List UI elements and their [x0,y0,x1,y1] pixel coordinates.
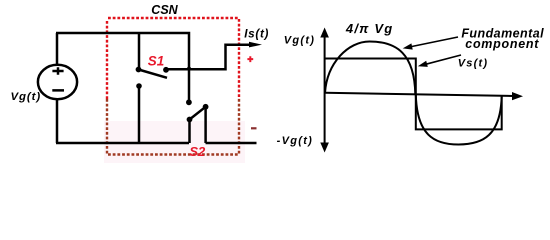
svg-text:component: component [465,37,539,51]
svg-text:Vs(t): Vs(t) [458,58,488,70]
svg-text:S1: S1 [148,54,164,69]
svg-text:S2: S2 [189,144,206,159]
svg-text:4/π Vg: 4/π Vg [345,21,394,36]
svg-text:Is(t): Is(t) [244,27,269,40]
svg-text:CSN: CSN [151,3,178,17]
svg-text:Vg(t): Vg(t) [284,34,316,46]
svg-text:Vg(t): Vg(t) [10,91,41,103]
svg-text:-Vg(t): -Vg(t) [277,135,314,147]
